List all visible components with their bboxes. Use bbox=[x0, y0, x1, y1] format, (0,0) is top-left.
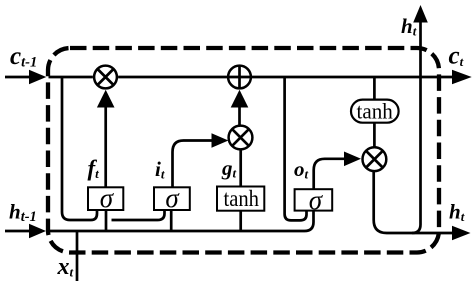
svg-text:gt: gt bbox=[221, 156, 237, 181]
svg-text:σ: σ bbox=[165, 183, 180, 213]
output arrowhead h_t (top) bbox=[413, 5, 428, 23]
sigma box i gate bbox=[154, 187, 190, 210]
wire sigma_f to X1 with arrowhead bbox=[104, 106, 107, 187]
wire sigma_o to X3 with arrowhead bbox=[314, 159, 345, 189]
svg-text:ht: ht bbox=[449, 200, 465, 225]
svg-text:ct: ct bbox=[449, 43, 464, 70]
multiplier X3 (output gate product) bbox=[363, 147, 387, 171]
svg-text:σ: σ bbox=[309, 185, 324, 215]
bus stub into sigma_i bbox=[170, 210, 173, 231]
wire c line left segment bbox=[49, 76, 93, 79]
wire tanh_g to X2 bbox=[239, 150, 242, 187]
wire c line right segment bbox=[252, 76, 453, 79]
tanh box g bbox=[217, 187, 264, 211]
svg-text:xt: xt bbox=[57, 254, 74, 280]
output arrowhead c_t bbox=[452, 70, 472, 85]
multiplier X2 (input gate product) bbox=[229, 126, 253, 150]
tanh oval (output squash) bbox=[351, 100, 399, 123]
svg-text:ft: ft bbox=[88, 156, 100, 182]
output arrowhead h_t (right) bbox=[452, 226, 471, 241]
svg-text:tanh: tanh bbox=[357, 99, 393, 124]
bus stub into tanh_g bbox=[239, 211, 242, 231]
peephole wire continuation to sigma_i (gap over bus stub) bbox=[112, 211, 165, 221]
input arrow h_{t-1} bbox=[5, 230, 30, 233]
multiplier X1 (forget gate product) bbox=[94, 66, 117, 89]
adder (+) bbox=[228, 66, 251, 89]
wire c line middle segment bbox=[118, 76, 227, 79]
peephole wire from c_{t-1} down bbox=[62, 77, 97, 220]
wire X3 down to h output line bbox=[374, 172, 453, 234]
wire h/x bus bbox=[49, 211, 314, 231]
wire X2 to adder with arrowhead bbox=[238, 106, 241, 125]
svg-text:tanh: tanh bbox=[224, 186, 260, 211]
sigma box o gate bbox=[295, 189, 333, 210]
wire sigma_i to X2 with arrowhead bbox=[173, 141, 213, 188]
svg-text:σ: σ bbox=[100, 183, 115, 213]
wire c_t into tanh oval bbox=[373, 77, 376, 100]
wire h_t branch up to top output bbox=[412, 22, 421, 234]
wire tanh oval to X3 bbox=[373, 123, 376, 147]
wire x_t input bbox=[76, 231, 79, 281]
LSTM cell dashed border bbox=[48, 48, 439, 253]
svg-text:ht: ht bbox=[401, 14, 417, 39]
svg-text:ct-1: ct-1 bbox=[10, 43, 37, 71]
svg-text:ht-1: ht-1 bbox=[9, 200, 37, 226]
input arrow c_{t-1} bbox=[5, 76, 30, 79]
peephole wire c_t to sigma_o bbox=[285, 77, 307, 220]
svg-text:it: it bbox=[155, 157, 165, 182]
bus stub into sigma_f bbox=[105, 210, 108, 231]
sigma box f gate bbox=[88, 187, 123, 210]
svg-text:ot: ot bbox=[294, 157, 309, 182]
